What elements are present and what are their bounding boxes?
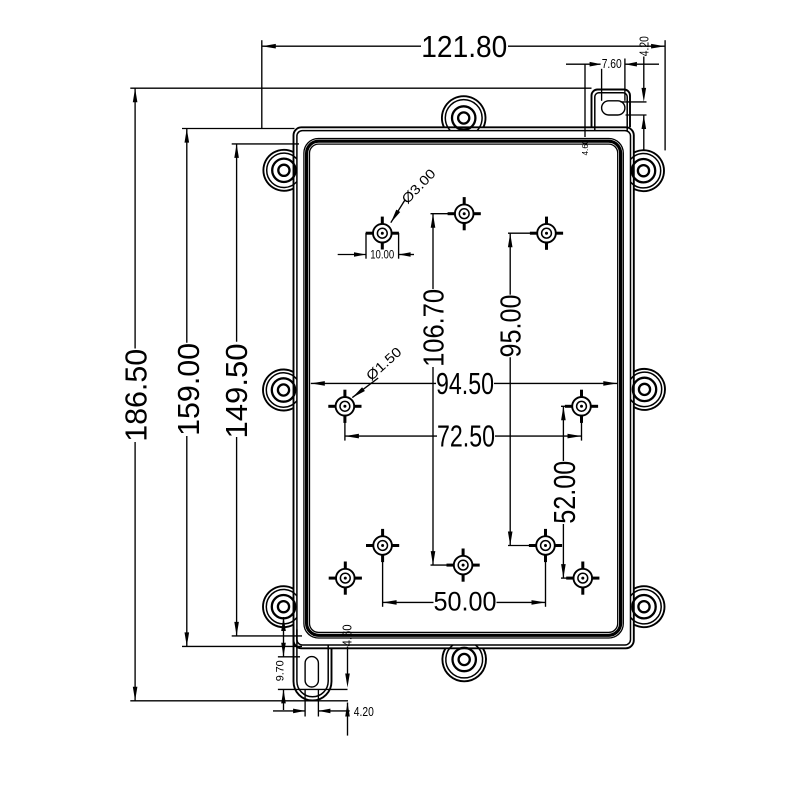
extension stub bottom (561, 577, 567, 579)
upper shaft (643, 57, 645, 89)
extension line slot bottom (278, 688, 348, 690)
arrowhead pointing down at slot top (642, 88, 647, 102)
dim line 149.50 upper part (236, 144, 238, 342)
hole B (crosshair target symbol) (448, 197, 481, 230)
arrowhead pointing up at slot bottom (281, 689, 286, 703)
svg-text:159.00: 159.00 (171, 343, 206, 436)
hole F (crosshair target symbol) (366, 529, 399, 562)
svg-text:121.80: 121.80 (421, 29, 507, 64)
svg-text:4.20: 4.20 (638, 36, 652, 56)
hole D (crosshair target symbol) (328, 390, 361, 423)
dim line 72.50 right part (495, 435, 582, 437)
arrowhead pointing left (318, 709, 330, 714)
svg-text:7.60: 7.60 (602, 57, 622, 71)
leader arrowhead (352, 387, 365, 397)
extension line left (from hole D) (344, 417, 346, 441)
dim line 50.00 left part (383, 601, 434, 603)
arrowhead top (431, 214, 436, 228)
corner lobe MR arcs (634, 369, 665, 410)
dim line 186.50 upper part (134, 88, 136, 348)
top-right mounting tab outer contour (592, 90, 631, 128)
arrowhead right (603, 381, 617, 386)
dim line 121.80 left part (262, 45, 421, 47)
dim line 149.50 lower part (236, 437, 238, 636)
extension line top (232, 143, 299, 145)
extension stub bottom (431, 564, 449, 566)
dim line 52.00 upper part (562, 406, 564, 461)
top-center bump arcs (442, 96, 486, 127)
svg-text:149.50: 149.50 (219, 344, 254, 439)
hole C (crosshair target symbol) (530, 217, 563, 250)
hole E (crosshair target symbol) (565, 390, 598, 423)
arrowhead top (234, 144, 239, 158)
enclosure wall contour rectangle (297, 131, 631, 645)
hole G (crosshair target symbol) (329, 562, 362, 595)
dim line 94.50 right part (494, 382, 617, 384)
top-right tab slot (602, 101, 625, 115)
arrowhead pointing left (399, 252, 411, 257)
extension line right (398, 233, 400, 259)
dim line 72.50 left part (345, 435, 437, 437)
extension line right (624, 59, 626, 101)
hole A (crosshair target symbol) (366, 217, 399, 250)
extension line bottom (232, 635, 302, 637)
svg-text:94.50: 94.50 (436, 366, 494, 401)
svg-text:10.00: 10.00 (370, 250, 394, 262)
extension line right (317, 689, 319, 716)
arrowhead right (532, 600, 546, 605)
extension line top (182, 128, 295, 130)
extension line bottom (to tab) (130, 700, 348, 702)
text 10.00 (369, 250, 395, 260)
bottom-left mounting tab outer contour (294, 627, 332, 701)
svg-text:50.00: 50.00 (434, 587, 497, 617)
mounting hole top-right (double circle) (632, 159, 655, 182)
arrowhead left (262, 44, 276, 49)
extension stub slot bottom (626, 114, 647, 116)
extension line right (from hole I) (545, 556, 547, 607)
lower shaft (347, 703, 349, 736)
arrowhead pointing up at slot bottom (642, 115, 647, 129)
mounting hole bottom-center (double circle) (453, 648, 476, 671)
arrowhead pointing right (293, 709, 305, 714)
arrowhead pointing up (345, 703, 350, 717)
extension line bottom (182, 645, 302, 647)
arrowhead bottom (133, 687, 138, 701)
dim line 159.00 lower part (186, 436, 188, 646)
upper shaft (347, 647, 349, 674)
svg-text:9.70: 9.70 (274, 660, 286, 681)
corner lobe BL arcs (263, 586, 293, 627)
extension line left (from hole F) (382, 556, 384, 607)
top-right mounting tab inner contour (595, 93, 627, 131)
corner lobe ML arcs (263, 370, 293, 411)
mounting hole top-left (double circle) (272, 159, 295, 182)
dim line 95.00 lower part (509, 357, 511, 545)
recess inner chamfer line (310, 144, 618, 632)
left shaft (566, 63, 602, 65)
lower shaft (283, 689, 285, 710)
dim line 186.50 lower part (134, 442, 136, 701)
extension stub bottom (508, 545, 530, 547)
left shaft (273, 710, 305, 712)
arrowhead pointing down (345, 674, 350, 688)
hole I (crosshair target symbol) (529, 529, 562, 562)
svg-text:72.50: 72.50 (437, 419, 495, 454)
arrowhead top (185, 129, 190, 143)
arrowhead top (561, 406, 566, 420)
right shaft (318, 710, 349, 712)
svg-text:4.60: 4.60 (341, 624, 355, 646)
hole H (crosshair target symbol) (447, 549, 480, 582)
enclosure outer silhouette rectangle (294, 127, 634, 648)
arrowhead right (568, 434, 582, 439)
arrowhead bottom (234, 622, 239, 636)
bottom-left mounting tab inner contour (297, 630, 328, 697)
dim line 50.00 right part (497, 601, 546, 603)
extension stub slot top (278, 656, 300, 658)
arrowhead bottom (431, 551, 436, 565)
dim line 106.70 upper part (432, 214, 434, 289)
upper shaft (283, 617, 285, 657)
arrowhead pointing right (354, 252, 366, 257)
leader line (391, 200, 405, 222)
leader line (584, 64, 586, 138)
text 7.60 (601, 58, 623, 69)
arrowhead bottom (561, 564, 566, 578)
svg-text:4.20: 4.20 (354, 704, 374, 719)
arrowhead pointing left (625, 62, 637, 67)
extension stub top (431, 213, 449, 215)
mounting hole bottom-right (double circle) (632, 595, 655, 618)
corner lobe TR arcs (634, 150, 664, 191)
bottom-center bump arcs (442, 648, 486, 681)
extension line top (to tab) (130, 87, 591, 89)
extension line left (601, 59, 603, 101)
arrowhead left (311, 381, 325, 386)
recess main thick edge (307, 141, 621, 635)
arrowhead top (508, 233, 513, 247)
dim line 95.00 upper part (509, 233, 511, 295)
arrowhead pointing right (590, 62, 602, 67)
svg-text:95.00: 95.00 (495, 294, 527, 357)
svg-text:186.50: 186.50 (118, 349, 153, 442)
dim line 52.00 lower part (562, 524, 564, 578)
extension line left (261, 40, 263, 128)
arrowhead top (133, 88, 138, 102)
lower shaft (643, 115, 645, 150)
bottom-left tab slot (305, 657, 318, 687)
extension line right (664, 40, 666, 150)
hole J (crosshair target symbol) (566, 562, 599, 595)
corner lobe TL arcs (263, 150, 293, 191)
extension line right (from hole E) (581, 417, 583, 441)
extension stub top (561, 405, 567, 407)
dim line 159.00 upper part (186, 129, 188, 343)
svg-text:4.60: 4.60 (580, 139, 590, 155)
leader arrowhead (391, 210, 400, 223)
arrowhead pointing up (281, 617, 286, 631)
left shaft (338, 254, 366, 256)
mounting hole bottom-left (double circle) (272, 595, 295, 618)
extension line left (365, 233, 367, 259)
dim line 94.50 left part (311, 382, 436, 384)
dim line 121.80 right part (508, 45, 665, 47)
extension line left (304, 689, 306, 716)
svg-text:106.70: 106.70 (419, 289, 451, 367)
extension stub top (508, 232, 531, 234)
dim line 106.70 lower part (432, 367, 434, 565)
mounting hole mid-right (double circle) (633, 378, 656, 401)
right shaft (625, 63, 659, 65)
arrowhead left (345, 434, 359, 439)
leader line (352, 378, 378, 398)
mounting hole mid-left (double circle) (272, 378, 295, 401)
mounting hole top-center (double circle) (452, 106, 475, 129)
svg-text:52.00: 52.00 (547, 461, 582, 524)
arrowhead right (651, 44, 665, 49)
arrowhead bottom (508, 532, 513, 546)
right shaft (399, 254, 414, 256)
arrowhead pointing down at slot top (281, 643, 286, 657)
recess outer chamfer line (304, 139, 623, 639)
arrowhead left (383, 600, 397, 605)
extension stub slot top (621, 101, 647, 103)
arrowhead bottom (185, 632, 190, 646)
corner lobe BR arcs (634, 586, 665, 627)
